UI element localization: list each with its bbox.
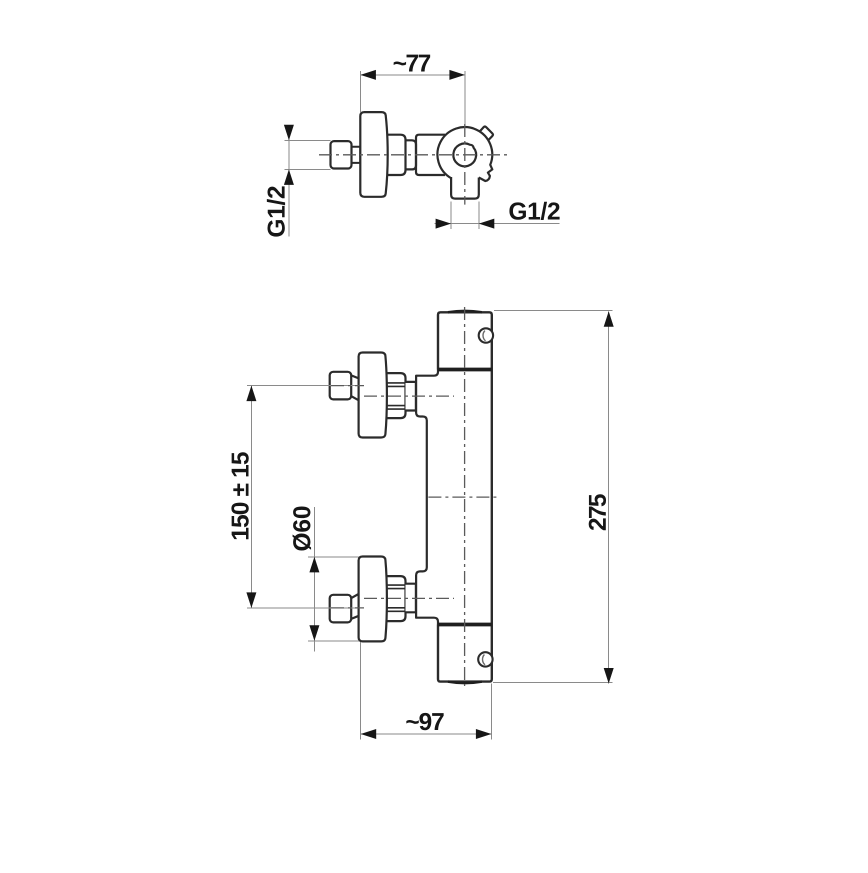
dim ~97 line bbox=[361, 733, 492, 735]
top view knob bbox=[331, 141, 352, 168]
dim 150 ext bottom bbox=[247, 607, 358, 609]
front vertical centerline bbox=[464, 307, 466, 686]
dim G1/2 left ext top bbox=[285, 139, 331, 141]
dim D60 ext bottom bbox=[308, 640, 359, 642]
top view valve body circle with notch bbox=[437, 127, 492, 181]
dim 275 ext bottom bbox=[493, 681, 613, 683]
dim G1/2 bottom leader line bbox=[435, 223, 560, 225]
front bottom silhouette bulge bbox=[448, 682, 482, 684]
front bottom hex nut bbox=[387, 576, 406, 621]
dim G1/2 bottom text bbox=[509, 202, 559, 220]
dim ~77 arrow left bbox=[360, 70, 376, 80]
dim 275 text bbox=[589, 494, 606, 530]
dim 150 line bbox=[250, 386, 252, 608]
dim ~77 text bbox=[394, 55, 431, 72]
dim 150 text bbox=[231, 452, 248, 539]
front horizontal centerline bbox=[428, 496, 499, 498]
top view horizontal centerline bbox=[319, 154, 508, 156]
dim D60 line bbox=[313, 507, 315, 652]
front bottom handle trapezoid bbox=[351, 593, 361, 619]
dim 275 arrow up bbox=[604, 311, 614, 327]
top view lug upper-right bbox=[480, 126, 493, 140]
dim D60 arrow up bbox=[309, 557, 319, 573]
front body mid-left profile bbox=[416, 370, 438, 625]
top view stem bbox=[352, 147, 361, 163]
front top handle axis centerline bbox=[364, 395, 454, 397]
dim G1/2 left text bbox=[267, 186, 285, 236]
dim D60 arrow down bbox=[309, 625, 319, 641]
dim ~97 arrow left bbox=[361, 729, 377, 739]
dim ~77 line bbox=[360, 74, 465, 76]
front bottom hex facets bbox=[385, 585, 406, 611]
dim ~77 arrow right bbox=[449, 70, 465, 80]
dim ~97 arrow right bbox=[476, 729, 492, 739]
front bottom cylinder bbox=[406, 584, 416, 613]
dim G1/2 left arrow up bbox=[284, 169, 294, 185]
dim G1/2 bottom arrow pointing left bbox=[479, 219, 495, 229]
dim G1/2 bottom arrow pointing right bbox=[436, 219, 452, 229]
front bottom knob bbox=[330, 595, 352, 623]
top view outlet pipe bbox=[451, 177, 479, 199]
front top knob axis centerline bbox=[331, 385, 364, 387]
dim 150 arrow up bbox=[246, 386, 256, 402]
dim 275 ext top bbox=[494, 310, 613, 312]
dim 275 line bbox=[608, 311, 610, 683]
front top flange bbox=[359, 353, 387, 438]
front top block bottom thick edge bbox=[438, 368, 492, 372]
front top knob bbox=[330, 372, 352, 400]
dim ~77 ext line right bbox=[464, 71, 466, 124]
front bottom handle axis centerline bbox=[364, 597, 454, 599]
dim G1/2 bottom ext right bbox=[478, 202, 480, 229]
top view hex nut bbox=[387, 135, 406, 175]
front top handle trapezoid bbox=[351, 375, 361, 401]
dim G1/2 left arrow down bbox=[284, 125, 294, 141]
dim 150 arrow down bbox=[246, 592, 256, 608]
front top screw bbox=[479, 328, 493, 342]
front bottom knob axis centerline bbox=[331, 607, 364, 609]
dim 275 arrow down bbox=[604, 668, 614, 684]
dim 150 ext top bbox=[247, 385, 358, 387]
top view valve block bbox=[416, 135, 445, 175]
dim ~97 ext right bbox=[490, 684, 492, 740]
dim D60 ext top bbox=[308, 556, 359, 558]
top view cylinder bbox=[406, 140, 417, 169]
front top cylinder bbox=[406, 382, 416, 411]
top view inner circle with notch bbox=[453, 143, 476, 166]
dim ~97 text bbox=[406, 713, 443, 730]
dim ~97 ext left bbox=[360, 642, 362, 740]
front top silhouette bulge bbox=[448, 311, 482, 312]
front body outline bbox=[438, 312, 492, 681]
front bottom screw bbox=[478, 652, 492, 666]
dim G1/2 bottom ext left bbox=[450, 202, 452, 229]
dim G1/2 left vertical line bbox=[288, 126, 290, 237]
top view vertical centerline bbox=[464, 124, 466, 205]
front top hex facets bbox=[385, 383, 406, 409]
front top hex nut bbox=[387, 373, 406, 418]
dim G1/2 left ext bottom bbox=[285, 168, 331, 170]
front bottom flange bbox=[359, 557, 387, 642]
front bottom block top thick edge bbox=[438, 623, 492, 627]
dim ~77 ext line left bbox=[359, 71, 361, 112]
dim D60 text bbox=[293, 507, 311, 551]
top view flange bbox=[360, 112, 387, 197]
